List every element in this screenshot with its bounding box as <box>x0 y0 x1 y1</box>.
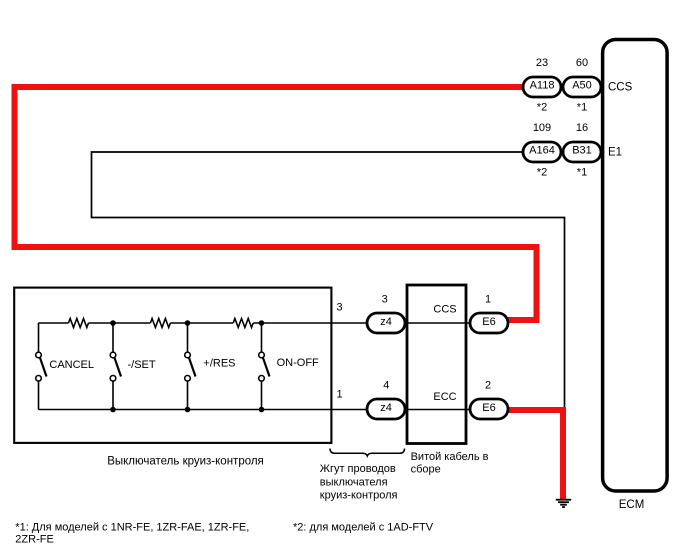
brace under z4 harness <box>330 449 405 457</box>
connector E6 (pin 2) <box>470 399 508 419</box>
svg-text:Витой кабель в: Витой кабель в <box>411 451 489 463</box>
connector A164 (ECM pin 109) <box>523 142 561 162</box>
svg-text:*2: *2 <box>537 167 547 179</box>
svg-text:60: 60 <box>576 57 588 69</box>
svg-text:2: 2 <box>485 379 491 391</box>
cable box (spiral cable outline) <box>407 285 466 444</box>
svg-text:1: 1 <box>485 294 491 306</box>
svg-text:*1: Для моделей с 1NR-FE, 1ZR-: *1: Для моделей с 1NR-FE, 1ZR-FAE, 1ZR-F… <box>15 522 249 534</box>
svg-text:3: 3 <box>382 294 388 306</box>
svg-text:+/RES: +/RES <box>203 358 235 370</box>
ground symbol <box>556 500 571 507</box>
svg-text:A164: A164 <box>529 145 555 157</box>
svg-text:z4: z4 <box>380 402 392 414</box>
svg-text:-/SET: -/SET <box>128 359 156 371</box>
svg-text:4: 4 <box>383 379 389 391</box>
svg-text:*1: *1 <box>577 167 587 179</box>
svg-text:Жгут проводов: Жгут проводов <box>320 463 396 475</box>
switch +/RES (column, contacts and arm) <box>185 323 196 410</box>
ECM box <box>603 40 668 492</box>
resistor (left, in series with CANCEL branch) <box>69 319 89 328</box>
svg-text:круиз-контроля: круиз-контроля <box>320 489 398 501</box>
connector A118 (ECM pin 23) <box>523 77 561 97</box>
svg-text:*2: *2 <box>537 102 547 114</box>
svg-text:ON-OFF: ON-OFF <box>277 357 319 369</box>
svg-text:E6: E6 <box>482 316 495 328</box>
connector B31 (ECM pin 16) <box>563 142 601 162</box>
connector z4 (pin 3) <box>367 313 405 333</box>
switch -/SET (column, contacts and arm) <box>110 323 121 410</box>
svg-text:1: 1 <box>336 389 342 401</box>
svg-text:3: 3 <box>336 302 342 314</box>
svg-text:16: 16 <box>576 122 588 134</box>
svg-text:ECM: ECM <box>619 499 645 511</box>
svg-text:E1: E1 <box>608 147 622 159</box>
svg-text:23: 23 <box>536 57 548 69</box>
svg-text:109: 109 <box>533 122 551 134</box>
connector E6 (pin 1) <box>470 313 508 333</box>
svg-text:E6: E6 <box>482 402 495 414</box>
svg-text:2ZR-FE: 2ZR-FE <box>15 534 54 546</box>
svg-text:B31: B31 <box>572 145 592 157</box>
wire: E1 signal wire from A164 down-around to ground junction <box>92 152 565 411</box>
junction dots on bottom rail <box>110 407 264 413</box>
svg-text:сборе: сборе <box>411 463 441 475</box>
wire: top rail of switch circuit (pin 3 / CCS line) <box>39 322 508 324</box>
svg-text:CCS: CCS <box>433 303 456 315</box>
svg-text:A50: A50 <box>572 80 592 92</box>
svg-text:*1: *1 <box>577 102 587 114</box>
svg-text:CANCEL: CANCEL <box>49 359 94 371</box>
svg-text:*2: для моделей с 1AD-FTV: *2: для моделей с 1AD-FTV <box>293 522 434 534</box>
switch ON-OFF (column, contacts and arm) <box>259 323 270 410</box>
connector z4 (pin 4) <box>367 399 405 419</box>
svg-text:Выключатель круиз-контроля: Выключатель круиз-контроля <box>107 455 264 467</box>
switch box (cruise control switch outline) <box>14 288 331 443</box>
svg-text:ECC: ECC <box>433 391 456 403</box>
wire: bottom rail of switch circuit (pin 1 / ECC line) <box>39 409 508 411</box>
svg-text:A118: A118 <box>530 80 555 92</box>
resistor (right, in series with +/RES branch) <box>233 319 253 328</box>
switch CANCEL (column, contacts and arm) <box>36 323 47 410</box>
wire: red CCS wire from A118 looping left/down to E6 pin 1 <box>15 87 537 320</box>
wire: red wire from E6 pin 2 to ground <box>506 410 563 501</box>
junction dots on top rail <box>110 320 264 326</box>
resistor (middle, in series with -/SET branch) <box>150 319 170 328</box>
svg-text:z4: z4 <box>380 316 392 328</box>
svg-text:CCS: CCS <box>608 82 633 94</box>
connector A50 (ECM pin 60) <box>563 77 601 97</box>
svg-text:выключателя: выключателя <box>320 476 388 488</box>
